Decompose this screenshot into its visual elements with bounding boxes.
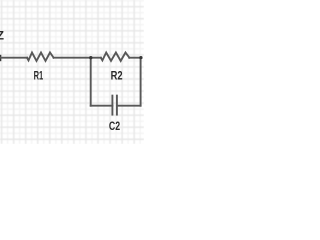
wire [54, 57, 101, 59]
wire [129, 57, 141, 59]
resistor R2 [101, 53, 130, 61]
wire [117, 105, 141, 107]
junction B [139, 56, 142, 59]
resistor R1 [27, 53, 54, 61]
capacitor C2 [111, 96, 113, 115]
svg-text:Z: Z [0, 28, 4, 42]
wire [91, 105, 113, 107]
svg-text:R1: R1 [34, 68, 44, 82]
terminal IN [0, 55, 1, 61]
svg-text:R2: R2 [111, 68, 123, 82]
junction A [89, 56, 92, 59]
wire [0, 57, 27, 59]
svg-text:C2: C2 [109, 119, 120, 133]
wire [140, 58, 142, 106]
wire [90, 58, 92, 106]
